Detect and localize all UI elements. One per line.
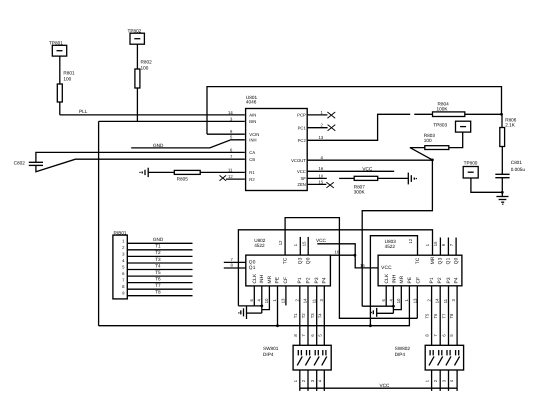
- wire R804 right lead to R806 top: [465, 113, 502, 115]
- resistor R807 300K: [354, 176, 378, 194]
- SW801 bottom pin numbers: [293, 379, 323, 382]
- wire U801 pin 15 ZEN stub: [308, 183, 327, 185]
- svg-text:INH: INH: [259, 274, 265, 283]
- svg-text:10: 10: [319, 173, 324, 178]
- svg-text:TC: TC: [283, 257, 289, 264]
- svg-text:4522: 4522: [385, 244, 396, 249]
- svg-text:P1: P1: [429, 277, 435, 283]
- svg-text:4522: 4522: [254, 243, 265, 248]
- svg-text:R805: R805: [177, 177, 189, 182]
- wire U803 pin 13 down to link: [416, 286, 418, 319]
- switch SW802 DIP4: [395, 345, 464, 370]
- svg-text:T2: T2: [301, 313, 306, 319]
- wire U803 pin 6 down: [385, 286, 387, 306]
- svg-text:15: 15: [302, 241, 307, 246]
- wire U803 T7 to SW802: [448, 286, 450, 346]
- svg-text:14: 14: [228, 110, 233, 115]
- svg-text:PE: PE: [275, 277, 281, 284]
- wire R806 bottom to C801: [501, 147, 503, 175]
- wire U801 pin 2 PC1 stub: [308, 127, 328, 129]
- wire U801 pin 12 stub: [226, 178, 245, 180]
- svg-text:MR: MR: [267, 275, 273, 283]
- wire VCIN to U801 pin 9: [207, 133, 245, 135]
- wire U803 T6 to SW802: [439, 286, 441, 346]
- svg-text:100K: 100K: [437, 106, 449, 111]
- SW802 top pin numbers: [425, 334, 455, 337]
- SW802 pole 2: [438, 350, 443, 365]
- svg-text:AIN: AIN: [249, 113, 256, 118]
- SW802 bottom pin numbers: [425, 379, 455, 382]
- svg-text:R801: R801: [63, 71, 75, 76]
- wire U802 pin 12 to U803 pin 13 link: [285, 218, 417, 319]
- SW801 pole 4: [322, 350, 327, 365]
- svg-text:T2: T2: [155, 250, 161, 255]
- SW802 pole 3: [446, 350, 451, 365]
- svg-text:16: 16: [319, 166, 324, 171]
- node R804 R806 rail junction: [500, 113, 503, 116]
- SW802 pole 4: [455, 350, 460, 365]
- svg-text:P3: P3: [446, 277, 452, 283]
- wire U802 T3 to SW801: [316, 286, 318, 345]
- svg-text:TP803: TP803: [433, 123, 447, 128]
- svg-text:Q1: Q1: [446, 257, 452, 264]
- svg-text:P1: P1: [297, 277, 303, 283]
- wire TP801 to R801: [59, 56, 61, 84]
- svg-text:Q3: Q3: [438, 257, 444, 264]
- svg-text:2.1K: 2.1K: [505, 122, 516, 127]
- wire U802 pin 1 down to bus: [277, 286, 279, 326]
- U802 top stub numbers: [278, 240, 306, 246]
- svg-text:T1: T1: [293, 313, 298, 319]
- svg-text:13: 13: [319, 135, 324, 140]
- wire BIN vertical feedback: [98, 121, 100, 325]
- wire U802 pin 16: [330, 254, 355, 256]
- svg-text:SW801: SW801: [263, 346, 279, 351]
- net labels T5-T8: [425, 313, 455, 319]
- svg-text:VCOUT: VCOUT: [291, 158, 306, 163]
- svg-text:14: 14: [303, 298, 308, 303]
- SW801 pole 1: [297, 350, 302, 365]
- wire U802 T2 to SW801: [307, 286, 309, 345]
- U803 top stub pin 15: [439, 238, 441, 256]
- svg-text:11: 11: [228, 167, 233, 172]
- svg-text:GND: GND: [153, 237, 164, 242]
- svg-text:INH: INH: [392, 274, 398, 283]
- svg-text:CLK: CLK: [252, 273, 258, 284]
- counter IC U803 4522: [378, 239, 462, 286]
- svg-text:DIP4: DIP4: [395, 352, 406, 357]
- node U802 pin1 bus junction: [276, 324, 279, 327]
- svg-text:VCC: VCC: [362, 166, 373, 171]
- node U802 pin4 ground junction: [260, 305, 263, 308]
- op IC U801 4046: [246, 95, 308, 191]
- svg-text:Q0: Q0: [453, 257, 459, 264]
- wire R805 to U801 pin 11: [200, 171, 245, 173]
- U803 top stub numbers: [408, 238, 454, 246]
- wire VCC stub to U803 pin 16: [317, 244, 378, 268]
- svg-text:Q0: Q0: [249, 260, 256, 266]
- wire R807 to ground: [378, 177, 409, 179]
- node VCC pin16 junction: [354, 254, 357, 257]
- node U803 pin12 bus junction: [369, 324, 372, 327]
- resistor R801 100: [57, 71, 75, 103]
- SW801 top pin numbers: [293, 334, 323, 337]
- svg-text:VCC: VCC: [297, 169, 306, 174]
- ground right of R807: [408, 173, 417, 185]
- wire RIB01 pin 4 T3: [127, 262, 192, 264]
- wire U802 pin 6 down: [253, 286, 255, 306]
- svg-text:T5: T5: [155, 270, 161, 275]
- svg-text:CLK: CLK: [384, 273, 390, 284]
- wire RIB01 pin 7 T6: [127, 282, 192, 284]
- svg-text:T6: T6: [433, 313, 438, 319]
- svg-text:10: 10: [264, 298, 269, 303]
- svg-text:VCC: VCC: [316, 238, 327, 243]
- SW801 pole 2: [305, 350, 310, 365]
- svg-text:ZEN: ZEN: [297, 182, 305, 187]
- svg-text:MR: MR: [430, 256, 436, 264]
- capacitor C801 0.005u: [495, 160, 525, 178]
- svg-text:T1: T1: [155, 244, 161, 249]
- wire U801 pin 4 VCOUT: [308, 159, 433, 161]
- wire ground to R805: [148, 171, 174, 173]
- U802 bottom pin numbers: [249, 298, 324, 303]
- wire U802 ground tie: [238, 305, 261, 307]
- wire VCOUT down to divider clock: [362, 160, 432, 306]
- svg-text:Q1: Q1: [249, 265, 256, 271]
- wire C801 bottom to ground: [501, 178, 503, 197]
- wire U802 left pin 8: [224, 267, 246, 269]
- svg-text:300K: 300K: [354, 190, 366, 195]
- svg-text:CF: CF: [415, 277, 421, 284]
- ground for R805: [139, 168, 148, 177]
- resistor R805: [174, 170, 200, 181]
- wire U802 pin 10 down: [262, 286, 270, 310]
- wire U802 T4 to SW801: [323, 286, 325, 345]
- svg-text:PCP: PCP: [297, 113, 306, 118]
- resistor R804 100K: [433, 101, 465, 116]
- U802 left pin numbers: [231, 257, 234, 268]
- svg-text:P4: P4: [453, 277, 459, 283]
- ground below C801: [496, 197, 508, 205]
- svg-text:CF: CF: [283, 277, 289, 284]
- svg-text:VCC: VCC: [381, 265, 392, 271]
- test point TP803: [433, 121, 470, 132]
- RIB01 net labels: [153, 237, 164, 294]
- wire U803 pin 12 to feedback bus: [370, 236, 417, 326]
- svg-text:15: 15: [433, 241, 438, 246]
- U802 top stub pin 15: [307, 237, 309, 255]
- wire bottom VCC rail: [300, 387, 457, 389]
- RIB01 pin numbers: [122, 238, 125, 295]
- svg-text:PLL: PLL: [79, 109, 88, 114]
- resistor R803 100: [424, 133, 449, 150]
- U801 left pin numbers: [228, 110, 233, 179]
- svg-text:10: 10: [396, 298, 401, 303]
- svg-text:12: 12: [408, 238, 413, 243]
- U803 bottom pin numbers: [381, 298, 456, 303]
- wire PLL net to U801 pin 14: [60, 114, 245, 116]
- svg-text:C802: C802: [14, 160, 26, 165]
- wire R803 left lead diagonal to VCOUT: [410, 148, 433, 160]
- ground U802: [238, 306, 262, 319]
- svg-text:T4: T4: [155, 263, 161, 268]
- svg-text:VCC: VCC: [380, 383, 391, 388]
- svg-text:100: 100: [424, 138, 432, 143]
- wire U803 pin 4 down: [392, 286, 394, 314]
- svg-text:PC1: PC1: [298, 125, 307, 130]
- svg-text:4046: 4046: [246, 100, 257, 105]
- wire U801 pin 16 VCC stub: [308, 170, 395, 172]
- wire R801 to PLL node: [59, 102, 61, 115]
- wire R806 top lead: [501, 114, 503, 127]
- net labels T1-T4: [293, 313, 323, 319]
- wire RIB01 pin 3 T2: [127, 255, 192, 257]
- resistor R802 100: [135, 60, 152, 89]
- svg-text:T8: T8: [449, 313, 454, 319]
- SW802 pole 1: [429, 350, 434, 365]
- wire U803 T5 to SW802: [431, 286, 433, 346]
- svg-text:T4: T4: [317, 313, 322, 319]
- svg-text:11: 11: [443, 298, 448, 303]
- svg-text:R802: R802: [141, 60, 153, 65]
- svg-text:P3: P3: [314, 277, 320, 283]
- wire R802 to BIN line: [136, 88, 138, 121]
- svg-text:15: 15: [319, 179, 324, 184]
- U801 right pin numbers: [319, 110, 324, 185]
- svg-text:T7: T7: [442, 313, 447, 319]
- svg-text:PE: PE: [407, 277, 413, 284]
- svg-text:16: 16: [335, 250, 340, 255]
- resistor R806 2.1K: [500, 117, 517, 146]
- wire U801 pin 10 SF stub: [308, 177, 327, 179]
- wire C802 top to U801 pin 6 CA: [36, 152, 245, 162]
- wire U802 T1 to SW801: [299, 286, 301, 345]
- wire U801 pin 1 PCP stub: [308, 114, 328, 116]
- svg-text:INH: INH: [249, 138, 256, 143]
- wire SW801 bottom pins: [300, 370, 325, 391]
- wire C802 bottom to U801 pin 7 CB: [36, 159, 245, 172]
- no-connect X on pin 2: [328, 125, 336, 131]
- wire TP803 to R803: [449, 132, 463, 148]
- svg-text:BIN: BIN: [249, 119, 256, 124]
- svg-text:R1: R1: [249, 170, 255, 175]
- wire SF to R807: [339, 177, 354, 179]
- capacitor C802: [14, 160, 43, 165]
- svg-text:PC2: PC2: [298, 138, 307, 143]
- no-connect X on pin 15: [326, 182, 333, 188]
- wire U803 T8 to SW802: [456, 286, 458, 346]
- test point TP802: [128, 29, 145, 45]
- svg-text:SW802: SW802: [395, 346, 411, 351]
- wire BIN feedback to U801 pin 3: [99, 120, 245, 122]
- svg-text:12: 12: [278, 240, 283, 245]
- switch SW801 DIP4: [263, 345, 331, 370]
- wire RIB01 pin 6 T5: [127, 275, 192, 277]
- wire ground link U802 to U803 pin 1: [238, 230, 432, 306]
- U803 inside pin names: [381, 256, 459, 283]
- wire TP800 to C801 bottom: [471, 178, 502, 192]
- svg-text:14: 14: [435, 298, 440, 303]
- U803 top stub pin 7: [455, 238, 457, 256]
- wire RIB01 pin 8 T7: [127, 288, 192, 290]
- svg-text:VCIN: VCIN: [249, 132, 259, 137]
- wire GND to U801 pin 5: [131, 140, 245, 148]
- wire feedback bus: [99, 286, 410, 326]
- svg-text:TP800: TP800: [464, 160, 478, 165]
- svg-text:CA: CA: [249, 150, 255, 155]
- svg-text:SF: SF: [300, 176, 306, 181]
- svg-text:0.005u: 0.005u: [511, 167, 526, 172]
- test point TP800: [463, 160, 478, 178]
- wire RIB01 pin 1 GND: [127, 242, 192, 244]
- svg-text:P2: P2: [305, 277, 311, 283]
- svg-text:13: 13: [412, 298, 417, 303]
- test point TP801: [49, 41, 67, 57]
- wire top rail VCIN: [207, 87, 502, 135]
- counter IC U802 4522: [246, 238, 331, 286]
- svg-text:Q3: Q3: [298, 257, 304, 264]
- wire U802 pin 13 stub: [285, 286, 287, 306]
- wire RIB01 pin 9 T8: [127, 295, 192, 297]
- svg-text:T8: T8: [155, 290, 161, 295]
- svg-text:DIP4: DIP4: [263, 352, 274, 357]
- svg-text:100: 100: [141, 66, 149, 71]
- U802 inside pin names: [249, 257, 328, 283]
- wire SW802 bottom pins: [432, 370, 458, 391]
- svg-text:T3: T3: [155, 257, 161, 262]
- svg-text:T7: T7: [155, 283, 161, 288]
- svg-text:TC: TC: [415, 257, 421, 264]
- svg-text:100: 100: [63, 77, 71, 82]
- wire U802 pin 4 down: [261, 286, 263, 313]
- svg-text:P2: P2: [437, 277, 443, 283]
- U801 left pin names: [249, 113, 259, 182]
- SW801 pole 3: [314, 350, 319, 365]
- svg-text:CB: CB: [249, 157, 255, 162]
- node VCOUT junction: [431, 159, 434, 162]
- svg-text:Q0: Q0: [306, 257, 312, 264]
- svg-text:R2: R2: [249, 177, 255, 182]
- connector RIB01: [113, 231, 127, 299]
- svg-text:T5: T5: [425, 313, 430, 319]
- wire U803 ground tie: [362, 305, 393, 307]
- svg-text:16: 16: [360, 263, 365, 268]
- svg-text:11: 11: [311, 298, 316, 303]
- svg-text:P4: P4: [322, 277, 328, 283]
- no-connect X on pin 1: [327, 112, 335, 118]
- node U803 pin4 ground junction: [392, 305, 395, 308]
- wire U803 pin 10 down: [393, 286, 401, 310]
- U801 right pin names: [291, 113, 306, 188]
- no-connect X on pin 12: [220, 175, 227, 180]
- svg-text:T6: T6: [155, 276, 161, 281]
- svg-text:12: 12: [228, 174, 233, 179]
- wire RIB01 pin 2 T1: [127, 249, 192, 251]
- wire U801 pin 13 PC2 to R804: [308, 114, 411, 140]
- svg-text:T3: T3: [310, 313, 315, 319]
- node C801 TP800 junction: [501, 191, 504, 194]
- U802 top stub pin 1: [299, 237, 301, 255]
- svg-text:C801: C801: [511, 160, 523, 165]
- wire R804 left lead: [414, 113, 432, 115]
- wire RIB01 pin 5 T4: [127, 269, 192, 271]
- ground U803: [371, 308, 394, 317]
- wire TP802 to R802: [136, 44, 138, 69]
- U803 top stub pin 9: [447, 238, 449, 256]
- svg-text:13: 13: [281, 298, 286, 303]
- wire U802 left pin 7: [224, 261, 246, 263]
- svg-text:MR: MR: [399, 275, 405, 283]
